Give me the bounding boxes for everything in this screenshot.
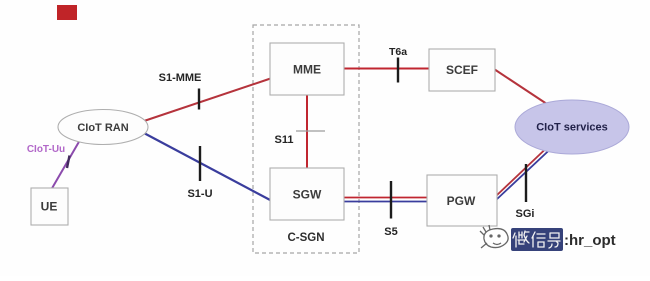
svg-text:S1-MME: S1-MME [159, 72, 202, 84]
svg-text:CIoT RAN: CIoT RAN [77, 122, 128, 134]
tick T6a [397, 58, 399, 83]
svg-text:SGW: SGW [293, 188, 322, 202]
wire S5 blue (SGW to PGW) [343, 201, 428, 203]
wire T6a (MME to SCEF) [343, 68, 430, 70]
svg-text:C-SGN: C-SGN [287, 232, 324, 244]
wire S11 (MME to SGW) [306, 94, 308, 169]
hidden red box (top-left) [57, 5, 77, 20]
tick S1-MME [198, 89, 200, 110]
wire SGi blue (PGW to CIoT services) [496, 141, 559, 200]
svg-text:PGW: PGW [447, 194, 476, 208]
wire SGi red (PGW to CIoT services) [496, 139, 556, 196]
tick S11 (gray horizontal) [296, 130, 325, 132]
svg-text:S11: S11 [275, 134, 294, 146]
svg-text:T6a: T6a [389, 46, 407, 58]
svg-text:S5: S5 [384, 226, 397, 238]
svg-text:MME: MME [293, 63, 321, 77]
svg-text:UE: UE [41, 200, 58, 214]
wire S1-U (CIoT RAN to SGW) [142, 132, 272, 201]
node CIoT services [515, 100, 629, 154]
wire SCEF to CIoT services [494, 69, 556, 110]
C-SGN dashed group box [253, 25, 359, 253]
node PGW [427, 175, 497, 226]
svg-text:S1-U: S1-U [187, 188, 212, 200]
xin [532, 232, 545, 247]
watermark CJK text (wei xin hao) simplified strokes [513, 231, 560, 248]
tick CIoT-Uu [67, 156, 70, 169]
node SCEF [429, 49, 495, 91]
node CIoT RAN [58, 110, 148, 145]
svg-text:CIoT-Uu: CIoT-Uu [27, 144, 65, 155]
watermark blue box [511, 228, 563, 251]
node MME [270, 43, 344, 95]
watermark icon (sketch doodle) [480, 225, 508, 248]
tick S1-U [199, 146, 201, 181]
node SGW [270, 168, 344, 220]
svg-text::hr_opt: :hr_opt [564, 232, 616, 249]
tick SGi [525, 164, 527, 202]
svg-text:CIoT services: CIoT services [536, 122, 608, 134]
svg-text:SCEF: SCEF [446, 63, 478, 77]
node UE [31, 188, 68, 225]
wire S5 red (SGW to PGW) [343, 197, 428, 199]
wei [513, 231, 529, 247]
wire CIoT-Uu (CIoT RAN to UE) [51, 140, 80, 190]
svg-text:SGi: SGi [516, 208, 535, 220]
wire S1-MME (CIoT RAN to MME) [144, 78, 272, 121]
tick S5 [390, 181, 392, 219]
hao [548, 233, 560, 248]
